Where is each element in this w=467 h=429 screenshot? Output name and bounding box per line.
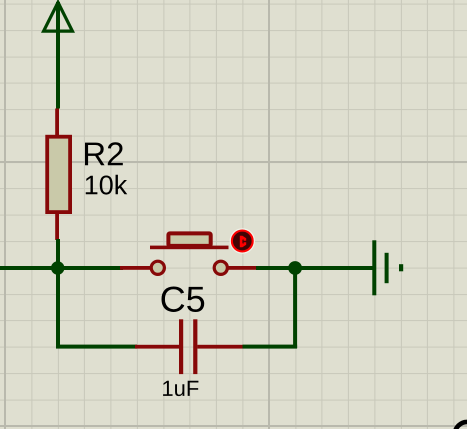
wire R2 to node A [56,239,60,269]
pin: R2 top pin [55,109,59,136]
node A junction [51,261,64,274]
pin: R2 bottom pin [55,214,59,240]
wire capacitor rail left [56,345,137,349]
interactive toggle button (red circle) [230,229,254,253]
label 10k [86,175,128,195]
label R2 [85,142,123,165]
label C5 [162,286,205,311]
partial letter C bottom right [455,422,467,429]
push button right terminal circle [214,261,227,274]
wire node B down [293,268,297,348]
wire capacitor rail right [243,345,298,349]
pin: button right pin [228,266,257,270]
wire node A down to capacitor rail [56,268,60,348]
push button actuator bar [150,246,229,250]
pin: C5 right pin [197,345,242,349]
battery pin stub [399,264,403,271]
power symbol VCC arrow [44,2,73,31]
capacitor C5 right plate [193,319,197,374]
node B junction [288,261,302,275]
resistor R2 [47,137,70,212]
push button cap [168,233,210,246]
battery short plate [385,253,389,283]
pin: button left pin [120,266,151,270]
battery long plate [372,240,376,295]
wire left rail into node A [0,266,123,270]
push button left terminal circle [151,261,164,274]
capacitor C5 left plate [179,319,183,374]
pin: C5 left pin [135,345,179,349]
label 1uF [163,381,198,396]
wire button to node B [256,266,374,270]
wire from power to R2 [56,2,60,109]
